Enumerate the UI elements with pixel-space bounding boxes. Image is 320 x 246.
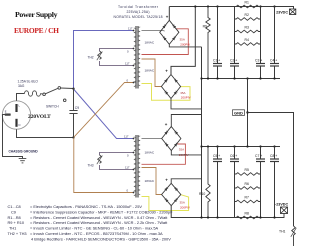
transformer T1 secondary winding	[138, 27, 140, 86]
svg-text:1.25A SL-BLO: 1.25A SL-BLO	[18, 80, 39, 84]
capacitor C9	[73, 89, 75, 111]
resistor R7	[235, 200, 261, 203]
capacitor C6	[230, 158, 239, 160]
wire U1 minus to GND collector	[169, 44, 201, 47]
svg-text:R9 + R10: R9 + R10	[8, 220, 25, 225]
wire GND collector vertical	[201, 47, 203, 218]
bridge rectifier U4	[162, 183, 181, 205]
wire U2 minus to GND collector	[171, 99, 202, 109]
resistor R8 on bus	[235, 216, 261, 219]
resistor R1 on rail	[235, 5, 261, 8]
svg-text:18VAC: 18VAC	[145, 41, 155, 45]
wire T1 w2 top tan to bridge U2	[142, 59, 162, 87]
wire U3 minus to negative collector	[171, 151, 201, 155]
T2 primary pin labels	[124, 134, 130, 192]
ground symbol	[19, 159, 27, 163]
thermistor TH1	[292, 226, 296, 246]
svg-text:R7: R7	[245, 195, 249, 199]
transformer T1 core	[135, 26, 137, 89]
capacitor C3	[256, 63, 265, 65]
svg-text:SWITCH: SWITCH	[46, 104, 59, 108]
capacitor C8	[274, 147, 276, 160]
svg-text:+: +	[165, 68, 168, 73]
wire U4 plus to GND collector	[171, 179, 201, 184]
svg-text:18VAC: 18VAC	[145, 179, 155, 183]
wire live blue diagonal to T2	[74, 89, 134, 139]
wire center GND column	[247, 79, 249, 147]
node neutral junction	[72, 136, 74, 138]
svg-text:R8: R8	[245, 211, 249, 215]
wire plug N to neutral bus	[17, 129, 74, 137]
transformer T2 secondary winding	[138, 136, 140, 195]
T2 pin dots	[133, 138, 135, 194]
node A junction	[72, 88, 74, 90]
svg-text:NORATEL MODEL TA225/18: NORATEL MODEL TA225/18	[114, 15, 163, 19]
svg-text:C9: C9	[75, 106, 79, 110]
svg-text:C7 +: C7 +	[255, 154, 262, 158]
thermistor TH2 loop	[100, 49, 134, 52]
ladder left rail	[234, 7, 236, 79]
svg-text:18VAC: 18VAC	[145, 151, 155, 155]
svg-text:C5 +: C5 +	[213, 154, 220, 158]
T1 pin dots	[133, 30, 135, 84]
transformer header text	[114, 5, 163, 19]
svg-text:R4: R4	[245, 38, 249, 42]
svg-text:R1...R8: R1...R8	[8, 215, 21, 220]
transformer T2 core	[135, 135, 137, 198]
capacitor C4	[274, 7, 276, 64]
svg-text:R6: R6	[245, 182, 249, 186]
svg-text:117: 117	[128, 27, 133, 31]
wire T1 w1 bottom red loop to U1	[142, 29, 189, 55]
svg-text:+: +	[165, 122, 168, 127]
thermistor TH2	[98, 51, 102, 59]
negative ladder right rail	[260, 147, 262, 218]
node GND junction	[246, 111, 248, 113]
transformer T2 primary winding	[134, 137, 136, 196]
svg-text:225VA(1.25A): 225VA(1.25A)	[127, 10, 150, 14]
bridge rectifier U2	[161, 75, 180, 99]
wire GND to right edge and down	[248, 113, 294, 227]
svg-text:TH2: TH2	[88, 55, 94, 59]
wire U2 plus riser to rail	[171, 7, 195, 75]
capacitor C7	[256, 158, 265, 160]
svg-text:GND: GND	[234, 110, 243, 115]
svg-text:R2: R2	[245, 13, 249, 17]
wire plug E to chassis	[3, 115, 23, 159]
wire negative top bus	[202, 146, 281, 148]
svg-text:220VOLT: 220VOLT	[28, 114, 51, 120]
bridge rectifier U3	[162, 127, 181, 151]
svg-text:+: +	[165, 177, 168, 182]
T1 primary pin labels	[125, 27, 133, 83]
svg-text:= Inrush Current Limiter - NTC: = Inrush Current Limiter - NTC - GE SENS…	[30, 226, 159, 231]
svg-text:Toroidal Transformer: Toroidal Transformer	[118, 5, 159, 9]
svg-text:C1...C8: C1...C8	[8, 204, 21, 209]
svg-text:R9: R9	[203, 25, 207, 29]
fuse label	[18, 80, 39, 89]
svg-text:C8 +: C8 +	[270, 154, 277, 158]
wire U3 plus to GND collector	[171, 115, 201, 127]
svg-text:E: E	[5, 109, 7, 113]
resistor R5	[235, 173, 261, 176]
svg-text:Power Supply: Power Supply	[15, 10, 58, 19]
node bus2t junctions	[200, 145, 275, 147]
wire U1 plus riser to rail	[168, 7, 170, 21]
svg-text:= Inrush Current Limiter - NTC: = Inrush Current Limiter - NTC - EPCOS -…	[30, 231, 163, 236]
svg-text:TH3: TH3	[88, 164, 94, 168]
node bus2b junctions	[200, 216, 275, 218]
svg-text:= Interference Suppression Cap: = Interference Suppression Capacitor - M…	[30, 209, 173, 214]
svg-text:200PIV: 200PIV	[180, 205, 190, 209]
resistor R9	[206, 7, 210, 79]
resistor R2	[235, 18, 261, 21]
svg-text:= Resistors - Cermet Coated Wi: = Resistors - Cermet Coated Wirewound - …	[30, 220, 168, 225]
svg-text:+: +	[166, 15, 169, 20]
capacitor C1	[217, 7, 219, 64]
bridge rectifier U1	[160, 20, 179, 44]
mains plug P1	[2, 101, 30, 129]
wire neutral tan diagonal to T1 bottom	[74, 83, 134, 138]
wire T1 w2 bottom yellow loop to U2	[142, 84, 191, 101]
svg-text:35A: 35A	[180, 200, 185, 204]
svg-text:18VAC: 18VAC	[145, 69, 155, 73]
svg-text:C3 +: C3 +	[255, 58, 262, 62]
fuse F1	[25, 91, 41, 96]
svg-text:C1 +: C1 +	[213, 58, 220, 62]
svg-text:35A: 35A	[180, 91, 185, 95]
thermistor TH3 loop	[100, 153, 134, 156]
svg-text:35A: 35A	[180, 37, 185, 41]
node rail junctions	[194, 5, 275, 7]
svg-text:-23VDC: -23VDC	[275, 203, 288, 207]
svg-text:C6 +: C6 +	[230, 154, 237, 158]
svg-text:N: N	[19, 123, 21, 127]
wire switch to node A	[61, 87, 74, 90]
svg-text:C2 +: C2 +	[230, 58, 237, 62]
wire positive bottom bus	[202, 78, 281, 80]
svg-text:C4 +: C4 +	[270, 58, 277, 62]
svg-text:R3: R3	[245, 25, 249, 29]
wire top rail	[169, 7, 293, 9]
GND label	[233, 110, 245, 116]
wire T2 w2 top tan to bridge U4	[142, 168, 162, 195]
svg-text:R1: R1	[245, 1, 249, 5]
connector -23VDC	[280, 214, 284, 218]
svg-text:CHASSIS GROUND: CHASSIS GROUND	[9, 150, 39, 154]
svg-text:R5: R5	[245, 168, 249, 172]
plug pin labels	[5, 104, 21, 128]
switch S1	[43, 87, 66, 102]
svg-text:35A: 35A	[179, 148, 184, 152]
wire T2 w2 bottom yellow loop to U4	[142, 195, 189, 211]
svg-text:TH1: TH1	[9, 226, 16, 231]
svg-text:R10: R10	[199, 192, 205, 196]
thermistor TH3	[98, 155, 102, 163]
wire fuse to switch	[41, 93, 43, 96]
capacitor C5	[217, 147, 219, 160]
svg-text:23VDC: 23VDC	[276, 10, 288, 14]
svg-text:EUROPE / CH: EUROPE / CH	[14, 26, 59, 35]
wire live blue riser and top run	[74, 31, 134, 89]
capacitor C2	[230, 63, 239, 65]
resistor R6	[235, 187, 261, 190]
wire T2 w1 bottom red loop to U3	[142, 144, 186, 164]
resistor R3	[235, 30, 261, 33]
svg-text:200PIV: 200PIV	[181, 96, 191, 100]
wire plug L to fuse	[17, 94, 25, 101]
node bus1 junctions	[200, 77, 275, 79]
svg-text:TH2 + TH3: TH2 + TH3	[8, 231, 27, 236]
svg-text:TH1: TH1	[279, 230, 286, 234]
wire U4 minus to negative bus	[171, 206, 280, 218]
resistor R10	[206, 147, 210, 218]
svg-text:117: 117	[125, 165, 130, 169]
svg-text:C9: C9	[11, 209, 16, 214]
svg-text:117: 117	[124, 134, 129, 138]
notes text block	[8, 204, 174, 241]
svg-text:4 Bridge Rectifiers - FAIRCHIL: 4 Bridge Rectifiers - FAIRCHILD SEMICOND…	[31, 236, 171, 241]
negative ladder left rail	[234, 147, 236, 218]
wire T1 w1 top gray to bridge U1	[142, 30, 165, 33]
svg-text:117: 117	[125, 61, 130, 65]
svg-text:200PIV: 200PIV	[180, 43, 190, 47]
svg-text:= Electrolytic Capacitors - PA: = Electrolytic Capacitors - PANASONIC - …	[30, 204, 142, 209]
resistor R4	[235, 43, 261, 46]
transformer T1 primary winding	[134, 28, 136, 87]
svg-text:3AG: 3AG	[18, 84, 25, 88]
wire T2 w1 top gray to bridge U3	[142, 138, 162, 140]
wire neutral tan to T2 bottom	[74, 138, 134, 193]
svg-text:= Resistors - Cermet Coated Wi: = Resistors - Cermet Coated Wirewound - …	[30, 215, 168, 220]
ladder right rail	[260, 7, 262, 79]
